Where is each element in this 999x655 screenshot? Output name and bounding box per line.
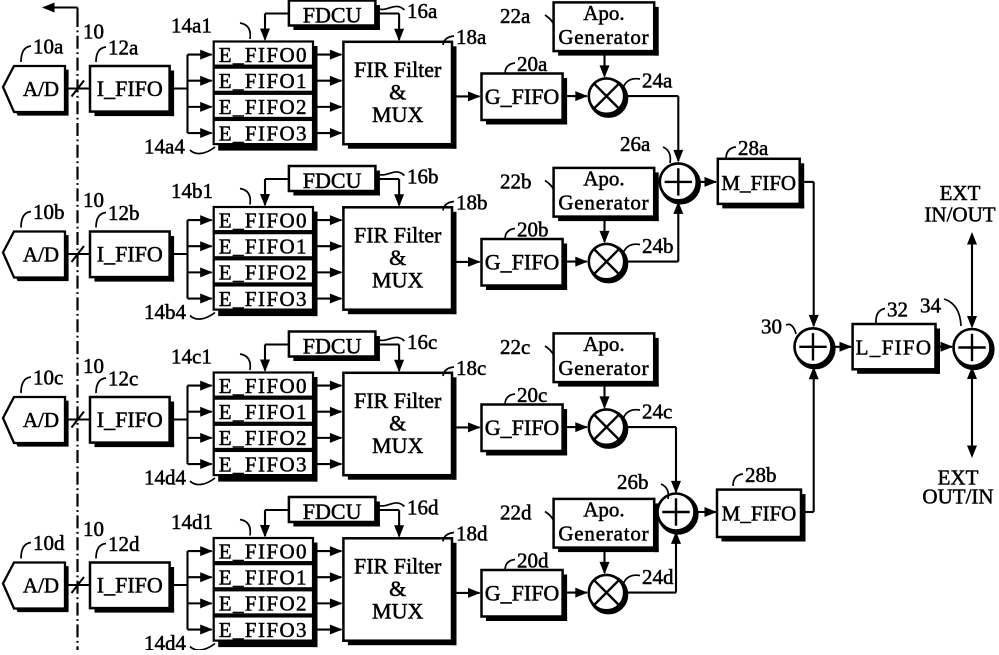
svg-text:26b: 26b <box>617 470 649 494</box>
label 12a <box>96 36 139 63</box>
svg-text:24d: 24d <box>642 565 674 589</box>
I_FIFO 12a <box>90 66 174 116</box>
svg-text:E_FIFO2: E_FIFO2 <box>219 95 308 119</box>
svg-text:E_FIFO2: E_FIFO2 <box>219 592 308 616</box>
label 20a <box>505 52 548 76</box>
svg-text:&: & <box>389 576 406 601</box>
svg-text:MUX: MUX <box>372 268 423 293</box>
FDCU 16d <box>289 497 380 527</box>
wire FDCU to FIR filter (row b) <box>375 179 404 207</box>
label 20d <box>505 549 549 573</box>
svg-text:Apo.: Apo. <box>583 498 624 522</box>
multiplier 24b <box>589 244 626 281</box>
svg-text:18a: 18a <box>456 25 487 49</box>
FIR Filter &amp; MUX 18d <box>343 538 456 645</box>
FDCU 16c <box>289 332 380 362</box>
svg-text:20b: 20b <box>517 218 549 242</box>
svg-text:24b: 24b <box>642 234 674 258</box>
wire Apo. Generator to multiplier (row d) <box>600 551 610 574</box>
wire FDCU to E_FIFO stack (row c) <box>260 345 289 373</box>
label 14c1 <box>171 345 250 371</box>
FIR Filter &amp; MUX 18c <box>343 373 456 480</box>
svg-text:FDCU: FDCU <box>303 3 362 28</box>
svg-text:10: 10 <box>83 517 104 541</box>
svg-text:10: 10 <box>83 20 104 44</box>
wire I_FIFO to E_FIFO input bus (row d) <box>170 546 213 634</box>
label 12b <box>96 201 140 228</box>
svg-text:FIR Filter: FIR Filter <box>354 388 442 413</box>
label 24b <box>623 234 674 258</box>
wire M_FIFO 28a to adder 30 <box>804 182 819 328</box>
label 10b <box>21 200 65 228</box>
wire L_FIFO to adder 34 <box>940 342 953 352</box>
svg-text:20a: 20a <box>517 52 548 76</box>
adder 30 <box>795 328 834 367</box>
label 22d <box>500 501 553 525</box>
svg-text:E_FIFO1: E_FIFO1 <box>219 69 308 93</box>
svg-text:24c: 24c <box>642 400 672 424</box>
svg-text:14d1: 14d1 <box>171 510 213 534</box>
wire multiplier 24b to adder 26a <box>624 201 683 261</box>
wire multiplier 24a to adder 26a <box>624 96 683 162</box>
svg-text:24a: 24a <box>642 69 673 93</box>
wire FDCU to FIR filter (row a) <box>375 14 404 42</box>
wire FDCU to E_FIFO stack (row d) <box>260 510 289 538</box>
G_FIFO 20a <box>482 74 568 125</box>
svg-text:IN/OUT: IN/OUT <box>924 203 995 227</box>
label 22c <box>500 335 553 359</box>
adder 26a <box>660 163 699 202</box>
svg-text:G_FIFO: G_FIFO <box>485 581 560 606</box>
svg-text:Apo.: Apo. <box>583 1 624 25</box>
svg-text:16d: 16d <box>407 496 439 520</box>
svg-text:10c: 10c <box>33 366 63 390</box>
svg-text:E_FIFO0: E_FIFO0 <box>219 208 308 232</box>
svg-text:30: 30 <box>761 315 782 339</box>
wire Apo. Generator to multiplier (row a) <box>600 55 610 78</box>
svg-text:22b: 22b <box>500 170 532 194</box>
svg-text:E_FIFO1: E_FIFO1 <box>219 400 308 424</box>
wire Apo. Generator to multiplier (row c) <box>600 386 610 409</box>
label 14b1 <box>171 179 250 205</box>
EXT IN/OUT bidirectional arrow <box>967 232 977 329</box>
label 34 <box>920 294 961 327</box>
G_FIFO 20b <box>482 239 568 290</box>
svg-text:E_FIFO0: E_FIFO0 <box>219 539 308 563</box>
svg-text:FDCU: FDCU <box>303 168 362 193</box>
label 12c <box>96 367 138 394</box>
label 24c <box>623 400 672 424</box>
svg-text:A/D: A/D <box>23 243 59 267</box>
Apo. Generator 22a <box>554 1 659 56</box>
adder 34 <box>954 329 993 368</box>
wires E_FIFO outputs to FIR filter (row d) <box>318 546 343 634</box>
svg-text:14c1: 14c1 <box>171 345 212 369</box>
I_FIFO 12d <box>90 563 174 613</box>
svg-text:MUX: MUX <box>372 599 423 624</box>
Apo. Generator 22b <box>554 167 659 222</box>
label 16d <box>375 496 439 520</box>
svg-text:14d4: 14d4 <box>144 631 187 650</box>
svg-text:M_FIFO: M_FIFO <box>722 502 797 526</box>
FDCU 16a <box>289 1 380 31</box>
svg-text:14a1: 14a1 <box>171 14 212 38</box>
svg-text:G_FIFO: G_FIFO <box>485 250 560 275</box>
svg-text:14a4: 14a4 <box>144 135 185 159</box>
svg-text:E_FIFO3: E_FIFO3 <box>219 121 308 145</box>
FIR Filter &amp; MUX 18b <box>343 207 456 314</box>
svg-text:10a: 10a <box>33 35 64 59</box>
svg-text:34: 34 <box>920 294 942 318</box>
wire G_FIFO to multiplier (row c) <box>567 422 588 432</box>
wires E_FIFO outputs to FIR filter (row b) <box>318 215 343 303</box>
wire A/D to I_FIFO (row c) <box>65 412 90 428</box>
wire adder 30 to L_FIFO <box>832 342 852 352</box>
wire FDCU to E_FIFO stack (row a) <box>260 14 289 42</box>
svg-text:12a: 12a <box>108 36 139 60</box>
wire A/D to I_FIFO (row b) <box>65 246 90 262</box>
label 10 (boundary) <box>83 20 104 44</box>
svg-text:28b: 28b <box>745 463 777 487</box>
label 14d1 <box>171 510 250 536</box>
svg-text:FDCU: FDCU <box>303 334 362 359</box>
label 10 (boundary) <box>83 354 104 378</box>
A/D converter 10d <box>3 563 69 613</box>
wire FDCU to FIR filter (row c) <box>375 345 404 373</box>
label 14d4 <box>144 466 215 490</box>
EXT OUT/IN bidirectional arrow <box>967 367 977 459</box>
wires E_FIFO outputs to FIR filter (row a) <box>318 50 343 138</box>
svg-text:18c: 18c <box>456 356 486 380</box>
label 18c <box>443 356 486 380</box>
label 20b <box>505 218 549 242</box>
svg-text:10: 10 <box>83 354 104 378</box>
svg-text:12c: 12c <box>108 367 138 391</box>
svg-text:22d: 22d <box>500 501 532 525</box>
label 10 (boundary) <box>83 517 104 541</box>
E_FIFO stack 14c (E_FIFO0..E_FIFO3) <box>214 373 318 482</box>
svg-text:18d: 18d <box>456 522 488 546</box>
svg-text:E_FIFO0: E_FIFO0 <box>219 374 308 398</box>
label 16c <box>375 330 437 354</box>
label 10c <box>21 366 63 394</box>
E_FIFO stack 14b (E_FIFO0..E_FIFO3) <box>214 207 318 316</box>
svg-text:28a: 28a <box>738 136 769 160</box>
adder 26b <box>658 494 697 533</box>
svg-text:Generator: Generator <box>558 356 649 380</box>
svg-text:&: & <box>389 411 406 436</box>
EXT IN/OUT label <box>924 181 995 227</box>
svg-text:FDCU: FDCU <box>303 499 362 524</box>
I_FIFO 12c <box>90 397 174 447</box>
svg-text:MUX: MUX <box>372 433 423 458</box>
svg-text:FIR Filter: FIR Filter <box>354 57 442 82</box>
svg-text:A/D: A/D <box>23 77 59 101</box>
label 14a4 <box>144 135 215 159</box>
wire I_FIFO to E_FIFO input bus (row a) <box>170 50 213 138</box>
label 10 (boundary) <box>83 188 104 212</box>
wire A/D to I_FIFO (row d) <box>65 577 90 593</box>
wire FDCU to E_FIFO stack (row b) <box>260 179 289 207</box>
M_FIFO 28a <box>718 159 804 209</box>
svg-text:12d: 12d <box>108 532 140 556</box>
M_FIFO 28b <box>717 490 806 542</box>
svg-text:&: & <box>389 80 406 105</box>
svg-text:A/D: A/D <box>23 574 59 598</box>
svg-text:FIR Filter: FIR Filter <box>354 223 442 248</box>
wire I_FIFO to E_FIFO input bus (row b) <box>170 215 213 303</box>
label 12d <box>96 532 140 559</box>
label 16a <box>375 0 438 23</box>
wire FIR to G_FIFO (row a) <box>457 91 481 101</box>
label 26b <box>617 470 668 499</box>
label 18a <box>443 25 487 49</box>
label 10d <box>21 531 65 559</box>
multiplier 24d <box>589 575 626 612</box>
A/D converter 10a <box>3 66 69 116</box>
L_FIFO 32 <box>853 324 940 374</box>
svg-text:10b: 10b <box>33 200 65 224</box>
svg-text:22c: 22c <box>500 335 530 359</box>
wire A/D to I_FIFO (row a) <box>65 81 90 97</box>
label 14a1 <box>171 14 250 40</box>
svg-text:E_FIFO0: E_FIFO0 <box>219 43 308 67</box>
svg-text:Apo.: Apo. <box>583 167 624 191</box>
svg-text:14d4: 14d4 <box>144 466 187 490</box>
label 28b <box>733 463 777 487</box>
svg-text:G_FIFO: G_FIFO <box>485 84 560 109</box>
svg-text:12b: 12b <box>108 201 140 225</box>
svg-text:E_FIFO3: E_FIFO3 <box>219 452 308 476</box>
wire adder 26a to M_FIFO 28a <box>697 177 717 187</box>
label 22a <box>500 4 553 28</box>
svg-text:14b1: 14b1 <box>171 179 213 203</box>
FIR Filter &amp; MUX 18a <box>343 42 456 149</box>
wire I_FIFO to E_FIFO input bus (row c) <box>170 381 213 469</box>
svg-text:E_FIFO2: E_FIFO2 <box>219 426 308 450</box>
svg-text:E_FIFO1: E_FIFO1 <box>219 235 308 259</box>
wire adder 26b to M_FIFO 28b <box>695 507 718 517</box>
FDCU 16b <box>289 166 380 196</box>
EXT OUT/IN label <box>922 466 993 509</box>
label 24a <box>623 69 673 93</box>
svg-text:16a: 16a <box>407 0 438 23</box>
label 30 <box>761 315 796 339</box>
svg-text:10d: 10d <box>33 531 65 555</box>
svg-text:Generator: Generator <box>558 191 649 215</box>
system boundary dash-dot line 10 <box>76 14 78 650</box>
A/D converter 10b <box>3 232 69 282</box>
label 18d <box>443 522 488 546</box>
label 26a <box>620 132 670 163</box>
wires E_FIFO outputs to FIR filter (row c) <box>318 381 343 469</box>
multiplier 24c <box>589 409 626 446</box>
svg-text:FIR Filter: FIR Filter <box>354 554 442 579</box>
wire multiplier 24c to adder 26b <box>624 427 681 493</box>
svg-text:10: 10 <box>83 188 104 212</box>
svg-text:I_FIFO: I_FIFO <box>97 573 163 598</box>
wire FIR to G_FIFO (row c) <box>457 422 481 432</box>
svg-text:E_FIFO3: E_FIFO3 <box>219 618 308 642</box>
svg-text:Generator: Generator <box>558 522 649 546</box>
wire FDCU to FIR filter (row d) <box>375 510 404 538</box>
wire G_FIFO to multiplier (row a) <box>567 91 588 101</box>
label 20c <box>505 383 547 407</box>
svg-text:G_FIFO: G_FIFO <box>485 415 560 440</box>
svg-text:Apo.: Apo. <box>583 332 624 356</box>
svg-text:E_FIFO3: E_FIFO3 <box>219 287 308 311</box>
label 28a <box>726 136 769 160</box>
G_FIFO 20c <box>482 405 568 456</box>
Apo. Generator 22c <box>554 332 659 387</box>
label 18b <box>443 191 488 215</box>
svg-text:E_FIFO1: E_FIFO1 <box>219 566 308 590</box>
svg-text:&: & <box>389 245 406 270</box>
E_FIFO stack 14d (E_FIFO0..E_FIFO3) <box>214 538 318 647</box>
svg-text:20d: 20d <box>517 549 549 573</box>
wire G_FIFO to multiplier (row b) <box>567 257 588 267</box>
wire Apo. Generator to multiplier (row b) <box>600 220 610 243</box>
svg-text:20c: 20c <box>517 383 547 407</box>
svg-text:Generator: Generator <box>558 25 649 49</box>
svg-text:OUT/IN: OUT/IN <box>922 485 993 509</box>
svg-text:L_FIFO: L_FIFO <box>856 336 933 360</box>
label 16b <box>375 165 438 189</box>
svg-text:32: 32 <box>887 298 908 322</box>
svg-text:MUX: MUX <box>372 102 423 127</box>
multiplier 24a <box>589 78 626 115</box>
svg-text:I_FIFO: I_FIFO <box>97 407 163 432</box>
I_FIFO 12b <box>90 232 174 282</box>
label 24d <box>623 565 674 589</box>
svg-text:16b: 16b <box>407 165 439 189</box>
label 10a <box>21 35 64 63</box>
svg-text:22a: 22a <box>500 4 531 28</box>
wire G_FIFO to multiplier (row d) <box>567 588 588 598</box>
Apo. Generator 22d <box>554 498 659 553</box>
svg-text:M_FIFO: M_FIFO <box>721 171 796 195</box>
E_FIFO stack 14a (E_FIFO0..E_FIFO3) <box>214 42 318 151</box>
boundary arrow (top left, pointing left) <box>42 3 78 18</box>
svg-text:A/D: A/D <box>23 408 59 432</box>
svg-text:I_FIFO: I_FIFO <box>97 76 163 101</box>
wire FIR to G_FIFO (row b) <box>457 257 481 267</box>
label 32 <box>876 298 908 325</box>
svg-text:16c: 16c <box>407 330 437 354</box>
wire multiplier 24d to adder 26b <box>624 531 681 592</box>
svg-text:E_FIFO2: E_FIFO2 <box>219 261 308 285</box>
label 14b4 <box>144 300 215 324</box>
A/D converter 10c <box>3 397 69 447</box>
label 22b <box>500 170 553 194</box>
svg-text:14b4: 14b4 <box>144 300 187 324</box>
wire FIR to G_FIFO (row d) <box>457 588 481 598</box>
svg-text:18b: 18b <box>456 191 488 215</box>
svg-text:I_FIFO: I_FIFO <box>97 242 163 267</box>
svg-text:EXT: EXT <box>940 181 981 205</box>
wire M_FIFO 28b to adder 30 <box>806 367 819 512</box>
label 14d4 <box>144 631 215 655</box>
G_FIFO 20d <box>482 570 568 621</box>
svg-text:26a: 26a <box>620 132 651 156</box>
